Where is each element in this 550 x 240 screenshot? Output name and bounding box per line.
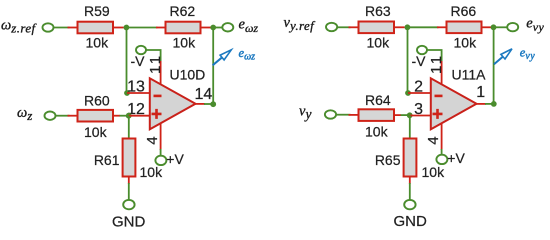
wire node D2 down to R65	[409, 115, 411, 139]
wire terminal to R59	[53, 27, 69, 29]
wire node A down to pin 13	[126, 28, 128, 91]
svg-text:10k: 10k	[173, 35, 197, 51]
wire node A2 to R66	[407, 26, 438, 28]
wire R60 left lead	[68, 115, 79, 117]
input terminal vy	[325, 110, 336, 118]
wire R66 right lead	[482, 26, 492, 28]
resistor R65 body	[404, 139, 417, 177]
U11A inverting input symbol	[435, 95, 443, 98]
wire pin 4 to +V terminal (right)	[441, 149, 443, 156]
junction node B2 (output net)	[491, 24, 497, 30]
svg-text:10k: 10k	[365, 123, 389, 139]
wire pin 1 output lead	[477, 103, 487, 105]
svg-text:R63: R63	[365, 3, 391, 19]
output terminal evy	[507, 23, 518, 31]
svg-text:R65: R65	[375, 152, 401, 168]
wire R59 right lead	[113, 27, 124, 29]
wire pin 11 stub (right)	[441, 61, 443, 85]
svg-text:14: 14	[195, 86, 213, 103]
wire R64 left lead	[349, 114, 360, 116]
wire R65 to ground terminal	[409, 183, 411, 201]
wire R66 left lead	[437, 26, 448, 28]
svg-text:10k: 10k	[84, 124, 108, 140]
svg-text:GND: GND	[394, 213, 428, 228]
negative supply terminal -V (right)	[417, 46, 427, 54]
wire pin 13 to op-amp	[127, 92, 151, 94]
svg-text:10k: 10k	[454, 34, 478, 50]
svg-text:ωz: ωz	[17, 105, 32, 123]
wire pin 12 to op-amp	[129, 115, 151, 117]
wire R61 to ground terminal	[128, 183, 130, 201]
svg-text:10k: 10k	[422, 164, 446, 180]
output terminal eωz	[222, 23, 233, 31]
svg-text:R59: R59	[84, 3, 110, 19]
wire R59 left lead	[68, 27, 79, 29]
junction node E2 (pin 1)	[491, 101, 497, 107]
wire R63 left lead	[349, 26, 360, 28]
svg-text:11: 11	[147, 53, 164, 74]
resistor R64 body	[359, 109, 395, 121]
input terminal ωz	[45, 112, 56, 120]
junction node C2 (pin 2)	[405, 90, 411, 96]
svg-text:10k: 10k	[367, 34, 391, 50]
wire R61 bottom lead	[128, 177, 130, 185]
wire pin 4 to +V terminal	[160, 149, 162, 156]
ground terminal	[123, 200, 134, 209]
svg-text:eωz: eωz	[239, 16, 259, 35]
wire pin 2 to op-amp	[408, 92, 432, 94]
wire terminal to R60	[55, 115, 69, 117]
svg-text:+V: +V	[166, 151, 184, 167]
svg-text:+V: +V	[447, 150, 465, 166]
svg-text:evy: evy	[526, 15, 544, 34]
svg-text:R60: R60	[84, 93, 110, 109]
wire pin 3 to op-amp	[410, 115, 432, 117]
svg-text:R66: R66	[451, 3, 477, 19]
wire terminal to R63	[337, 26, 350, 28]
junction node C (pin 13)	[124, 90, 130, 96]
resistor R62 body	[166, 22, 201, 34]
svg-text:eωz: eωz	[239, 46, 256, 63]
ground terminal (right)	[404, 200, 415, 209]
svg-text:10k: 10k	[140, 164, 164, 180]
wire R60 right lead	[113, 115, 120, 117]
resistor R66 body	[447, 22, 482, 34]
wire -V to pin 11 (right)	[427, 50, 441, 62]
svg-text:R62: R62	[170, 3, 196, 19]
input terminal ωz.ref	[43, 23, 54, 31]
junction node A (inverting input net)	[124, 25, 130, 31]
junction node B (output net)	[210, 25, 216, 31]
svg-text:2: 2	[414, 78, 423, 95]
wire pin 4 stub (right)	[441, 123, 443, 150]
wire output lead to node E2	[485, 103, 492, 105]
wire node B2 to output terminal	[494, 26, 509, 28]
wire node A to R62	[126, 27, 157, 29]
svg-text:vy.ref: vy.ref	[284, 15, 317, 33]
wire pin 11 stub	[160, 61, 162, 85]
svg-text:4: 4	[425, 136, 442, 144]
positive supply terminal +V (right)	[436, 155, 447, 164]
svg-text:R61: R61	[94, 152, 120, 168]
positive supply terminal +V	[155, 156, 166, 165]
svg-text:-V: -V	[412, 53, 427, 69]
U11A non-inverting input symbol	[433, 109, 443, 119]
resistor R59 body	[78, 22, 114, 34]
svg-text:-V: -V	[131, 53, 146, 69]
junction node D (pin 12 net)	[126, 113, 132, 119]
junction node D2 (pin 3 net)	[407, 112, 413, 118]
resistor R63 body	[359, 22, 395, 34]
svg-text:U11A: U11A	[452, 67, 487, 83]
probe arrow evy	[494, 49, 512, 65]
wire R62 left lead	[156, 27, 167, 29]
op-amp U11A body	[431, 78, 477, 129]
wire node D down to R61	[128, 116, 130, 140]
wire R64 right lead	[394, 114, 401, 116]
wire node A2 down to pin 2	[407, 27, 409, 90]
input terminal vy.ref	[326, 23, 337, 31]
junction node A2 (inverting input net)	[405, 24, 411, 30]
wire -V to pin 11	[146, 50, 160, 62]
op-amp U10D body	[150, 78, 196, 129]
wire node B to output terminal	[213, 27, 223, 29]
svg-text:4: 4	[144, 136, 161, 144]
resistor R61 body	[123, 139, 136, 177]
wire node E up to node B	[212, 28, 214, 105]
junction node E (pin 14)	[210, 101, 216, 107]
svg-text:GND: GND	[112, 214, 146, 229]
wire node E2 up to node B2	[493, 27, 495, 104]
U10D non-inverting input symbol	[152, 109, 162, 119]
resistor R60 body	[78, 110, 114, 122]
wire R60 lead to node D	[120, 115, 127, 117]
wire R63 right lead	[394, 26, 405, 28]
probe arrow eωz	[213, 50, 232, 66]
svg-text:10k: 10k	[86, 35, 110, 51]
svg-text:1: 1	[476, 84, 485, 101]
svg-text:13: 13	[127, 78, 145, 95]
svg-text:U10D: U10D	[170, 67, 206, 83]
svg-text:vy: vy	[299, 104, 311, 122]
negative supply terminal -V	[136, 46, 146, 54]
wire R62 right lead	[201, 27, 211, 29]
wire R65 bottom lead	[409, 177, 411, 185]
wire R64 lead to node D2	[401, 114, 408, 116]
wire pin 4 stub	[160, 123, 162, 150]
wire terminal to R64	[336, 114, 350, 116]
svg-text:evy: evy	[520, 45, 535, 62]
svg-text:11: 11	[428, 53, 445, 74]
svg-text:ωz.ref: ωz.ref	[1, 18, 38, 36]
svg-text:R64: R64	[365, 92, 391, 108]
U10D inverting input symbol	[154, 95, 162, 98]
wire pin 14 output lead	[196, 103, 206, 105]
wire output lead to node E	[204, 103, 211, 105]
